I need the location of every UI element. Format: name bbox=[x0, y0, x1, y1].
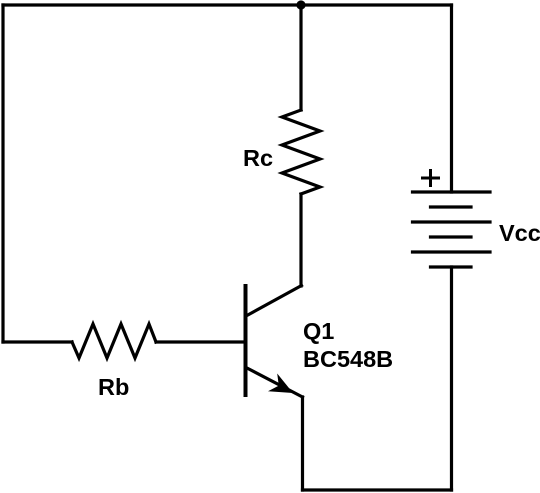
wire emitter down bbox=[301, 397, 304, 490]
wire left side bbox=[1, 5, 4, 342]
svg-text:Q1: Q1 bbox=[303, 318, 334, 344]
svg-text:Vcc: Vcc bbox=[499, 220, 540, 246]
wire top bbox=[3, 3, 452, 6]
wire bottom bbox=[303, 488, 452, 491]
resistor Rc bbox=[243, 110, 320, 194]
resistor Rb bbox=[72, 324, 156, 400]
wire battery bottom lead bbox=[450, 267, 453, 490]
node junction (top) bbox=[296, 0, 305, 9]
svg-text:BC548B: BC548B bbox=[303, 346, 393, 372]
wire right (top to battery +) bbox=[450, 5, 453, 192]
transistor Q1 bbox=[246, 286, 303, 398]
svg-text:Rc: Rc bbox=[243, 145, 273, 171]
battery Vcc bbox=[413, 192, 491, 267]
wire junction to Rc bbox=[299, 5, 302, 110]
plus sign (+) bbox=[421, 169, 440, 187]
svg-text:Rb: Rb bbox=[98, 374, 129, 400]
wire Rc to collector bbox=[299, 194, 302, 286]
wire Rb left lead bbox=[3, 340, 72, 343]
wire Rb to base bbox=[156, 340, 245, 343]
